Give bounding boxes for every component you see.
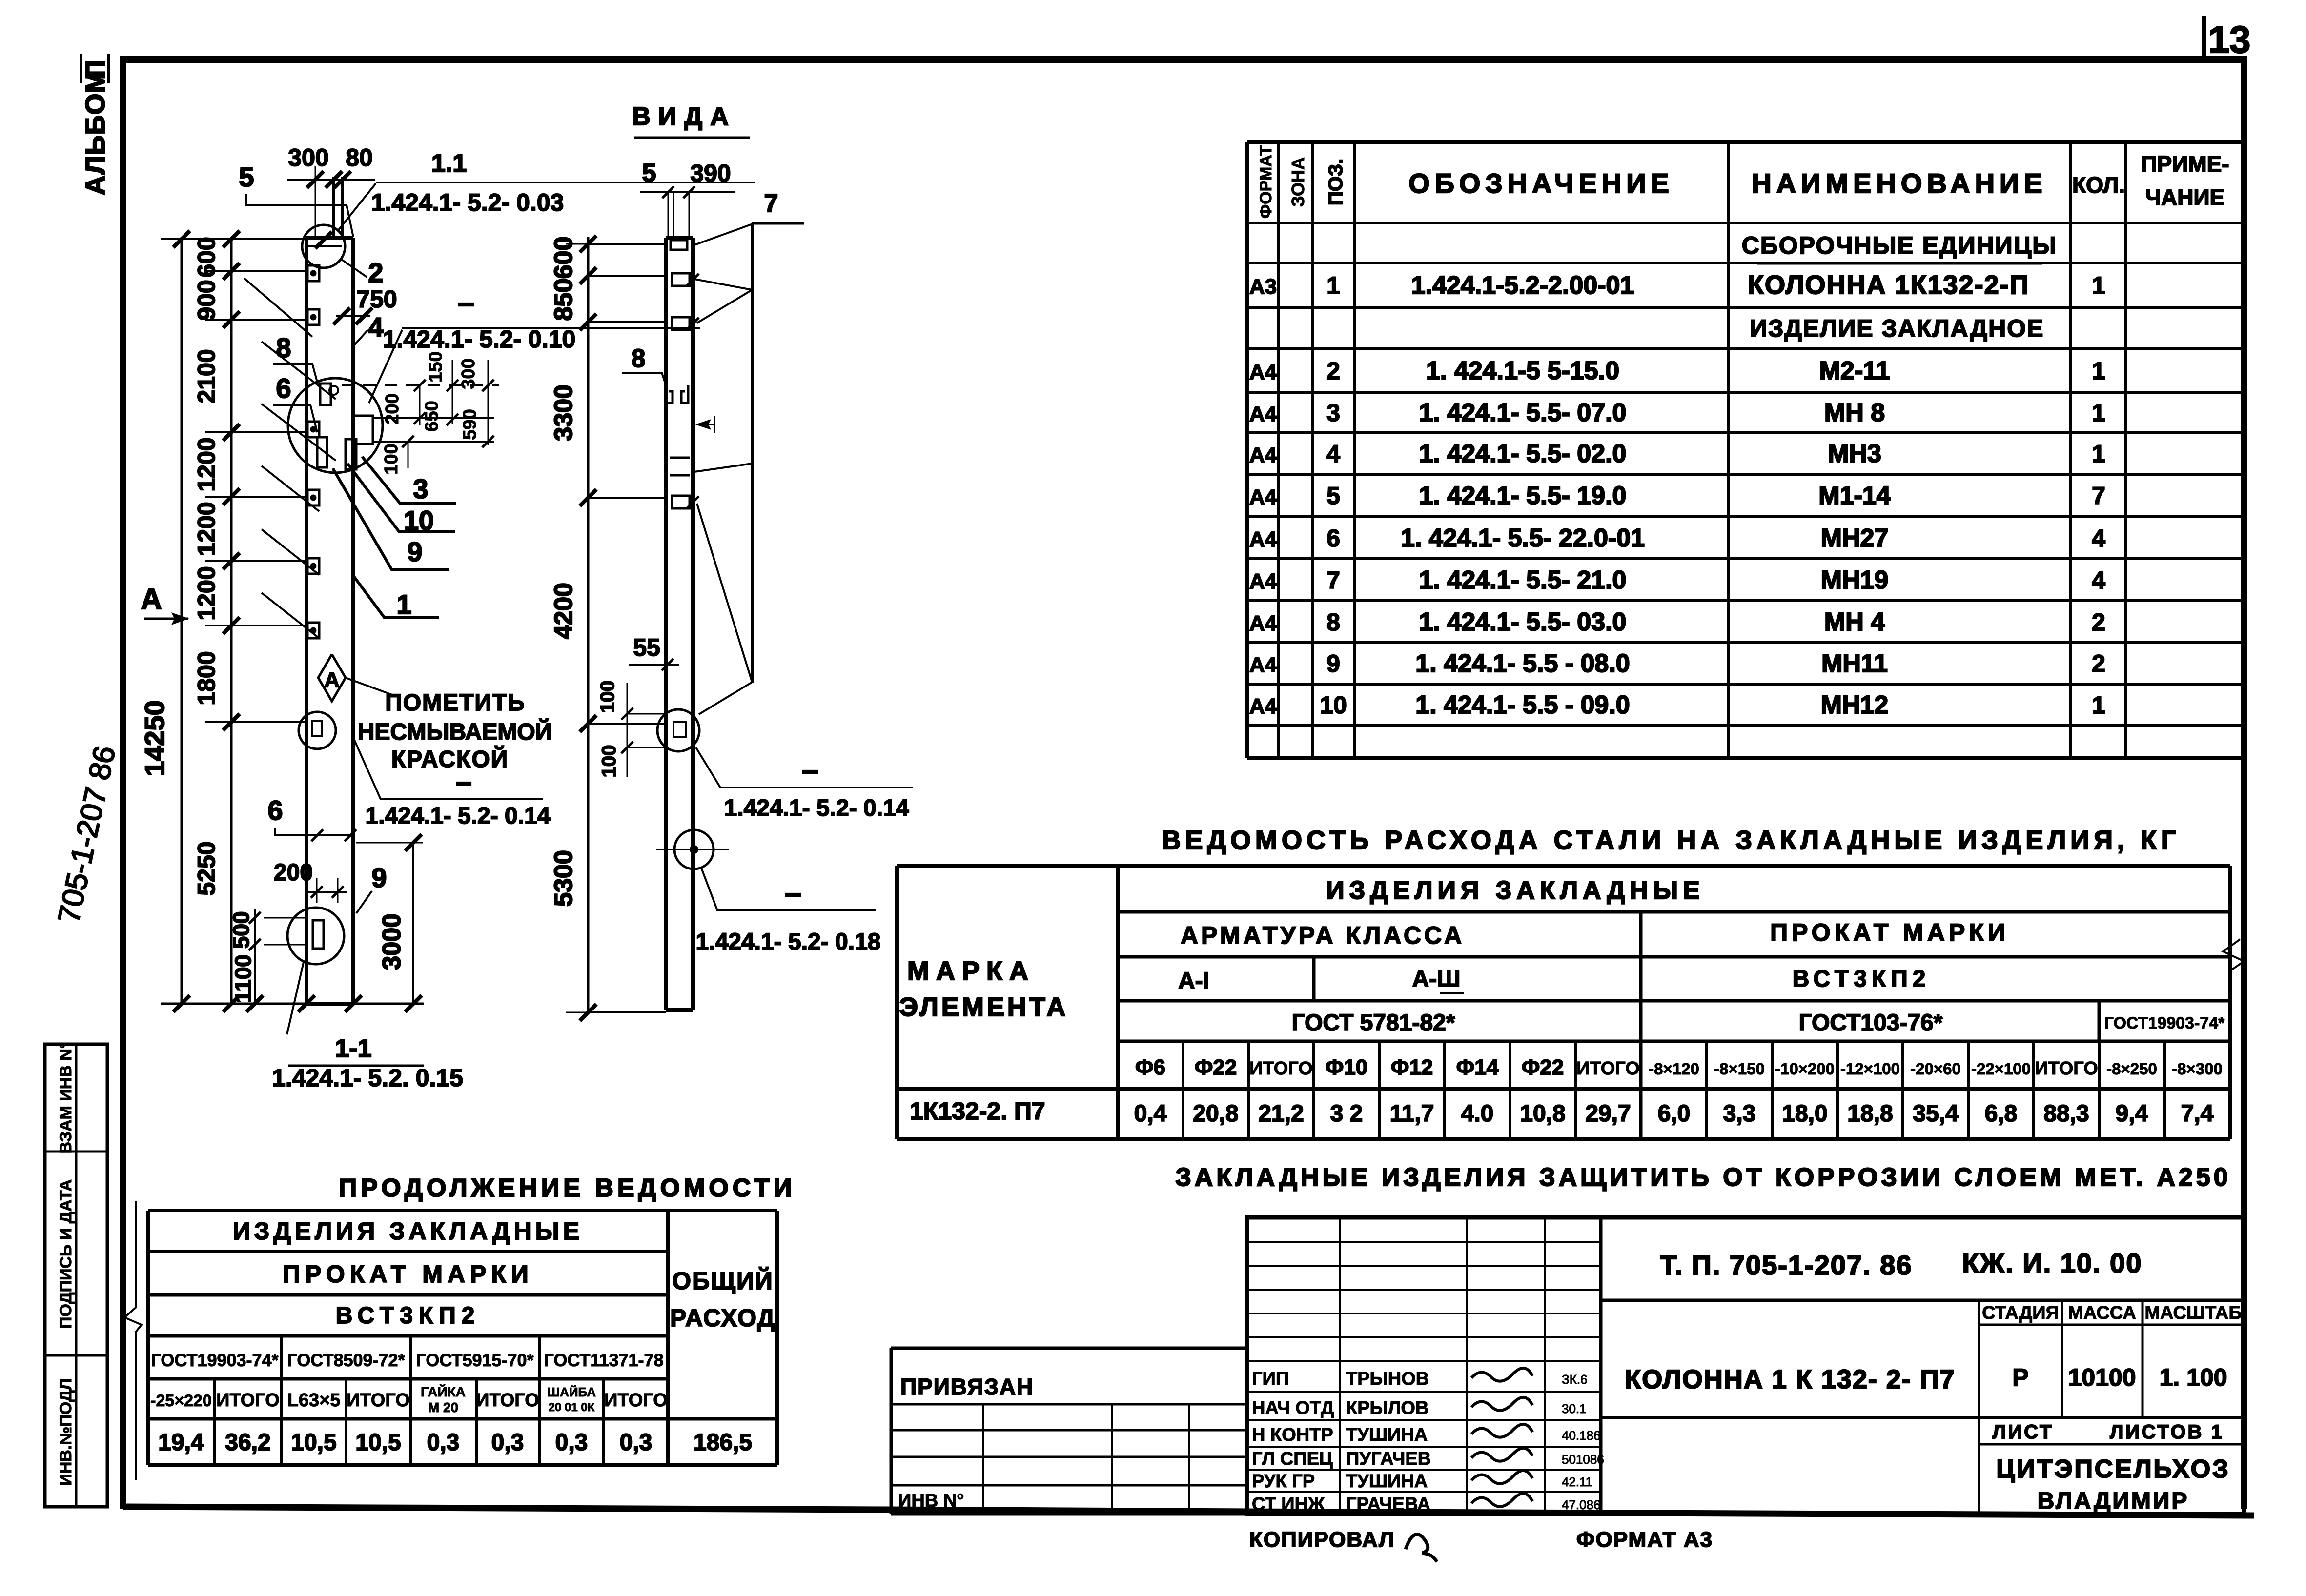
svg-text:ТУШИНА: ТУШИНА	[1346, 1471, 1428, 1492]
svg-text:СБОРОЧНЫЕ ЕДИНИЦЫ: СБОРОЧНЫЕ ЕДИНИЦЫ	[1742, 232, 2057, 259]
svg-text:ИНВ N°: ИНВ N°	[898, 1491, 964, 1511]
svg-text:НАИМЕНОВАНИЕ: НАИМЕНОВАНИЕ	[1752, 168, 2047, 199]
prodolzhenie table grid	[148, 1209, 777, 1212]
svg-text:100: 100	[597, 681, 618, 713]
svg-text:1: 1	[1326, 272, 1340, 299]
vedomost table grid	[897, 864, 2230, 868]
svg-text:3: 3	[1326, 399, 1340, 426]
svg-text:850: 850	[550, 279, 578, 321]
svg-text:КРАСКОЙ: КРАСКОЙ	[391, 746, 509, 772]
svg-text:КОПИРОВАЛ: КОПИРОВАЛ	[1249, 1528, 1395, 1552]
svg-text:ВЛАДИМИР: ВЛАДИМИР	[2038, 1488, 2189, 1514]
svg-text:600: 600	[550, 237, 578, 279]
sign-off signatures (squiggles)	[1471, 1368, 1532, 1381]
svg-text:ИЗДЕЛИЯ ЗАКЛАДНЫЕ: ИЗДЕЛИЯ ЗАКЛАДНЫЕ	[233, 1217, 583, 1245]
vid A dimension chain	[587, 237, 590, 1012]
dim chain 500 1100	[254, 909, 256, 1004]
svg-text:36,2: 36,2	[225, 1430, 270, 1455]
svg-text:13: 13	[2208, 18, 2251, 61]
svg-text:ИТОГО: ИТОГО	[604, 1390, 668, 1411]
svg-text:ЦИТЭПСЕЛЬХОЗ: ЦИТЭПСЕЛЬХОЗ	[1996, 1455, 2230, 1483]
svg-text:1-1: 1-1	[335, 1034, 371, 1063]
svg-text:300: 300	[288, 144, 328, 171]
title block sign-off grid	[1247, 1241, 1601, 1243]
svg-text:А4: А4	[1249, 569, 1277, 593]
svg-text:1: 1	[2092, 691, 2105, 719]
svg-text:МАСШТАБ: МАСШТАБ	[2144, 1303, 2242, 1323]
leader 1.424.1-5.2-0.10	[369, 330, 402, 403]
svg-text:МАРКА: МАРКА	[907, 956, 1035, 986]
svg-text:А4: А4	[1249, 402, 1277, 426]
svg-text:ВСТ3КП2: ВСТ3КП2	[1793, 966, 1931, 992]
svg-text:ПРИВЯЗАН: ПРИВЯЗАН	[900, 1374, 1034, 1399]
svg-text:1200: 1200	[193, 502, 220, 556]
svg-text:-8×250: -8×250	[2106, 1060, 2157, 1078]
svg-text:1. 424.1- 5.5- 02.0: 1. 424.1- 5.5- 02.0	[1419, 440, 1627, 468]
svg-text:18,0: 18,0	[1782, 1101, 1827, 1127]
svg-text:750: 750	[356, 285, 397, 313]
left dimension chain segments	[230, 237, 233, 1004]
svg-text:1. 424.1- 5.5- 19.0: 1. 424.1- 5.5- 19.0	[1419, 482, 1627, 510]
svg-text:8: 8	[1326, 608, 1340, 636]
vid A weld arrow	[696, 424, 714, 425]
svg-text:ПРИМЕ-: ПРИМЕ-	[2141, 151, 2229, 177]
svg-text:ГРАЧЕВА: ГРАЧЕВА	[1346, 1494, 1430, 1515]
svg-text:8: 8	[632, 344, 646, 373]
svg-text:ЗК.6: ЗК.6	[1562, 1372, 1588, 1387]
svg-text:Ф12: Ф12	[1391, 1055, 1433, 1079]
bottom detail circle	[287, 908, 344, 964]
svg-text:0,3: 0,3	[620, 1430, 653, 1455]
svg-text:6: 6	[1326, 525, 1340, 552]
svg-text:1.424.1- 5.2- 0.14: 1.424.1- 5.2- 0.14	[366, 803, 551, 829]
svg-text:390: 390	[690, 160, 731, 187]
svg-text:А4: А4	[1249, 360, 1277, 384]
svg-text:М 20: М 20	[428, 1400, 458, 1415]
svg-text:4200: 4200	[550, 583, 578, 639]
svg-text:9: 9	[1326, 650, 1340, 677]
svg-text:ФОРМАТ А3: ФОРМАТ А3	[1576, 1528, 1713, 1552]
svg-text:5250: 5250	[193, 841, 220, 895]
vid A column strip	[664, 238, 668, 1010]
svg-text:ЗОНА: ЗОНА	[1288, 157, 1308, 207]
svg-text:М1-14: М1-14	[1818, 482, 1890, 510]
svg-text:РУК ГР: РУК ГР	[1252, 1471, 1315, 1492]
svg-text:-22×100: -22×100	[1971, 1060, 2031, 1078]
svg-text:Ф22: Ф22	[1522, 1055, 1564, 1079]
vid A detail circle lower	[674, 830, 714, 869]
svg-text:ФОРМАТ: ФОРМАТ	[1257, 145, 1275, 219]
svg-text:2: 2	[2092, 650, 2105, 677]
svg-text:1100: 1100	[230, 954, 256, 1003]
svg-text:0,3: 0,3	[427, 1430, 460, 1455]
svg-text:9: 9	[407, 536, 422, 567]
svg-text:ИТОГО: ИТОГО	[347, 1390, 410, 1411]
svg-text:СТ ИНЖ: СТ ИНЖ	[1252, 1494, 1325, 1515]
svg-text:9,4: 9,4	[2116, 1101, 2148, 1127]
extension lines from chain to column	[161, 238, 315, 240]
svg-text:1. 424.1- 5.5- 07.0: 1. 424.1- 5.5- 07.0	[1419, 399, 1627, 427]
svg-text:А: А	[141, 583, 162, 615]
dashed line above console	[342, 384, 499, 386]
svg-text:-8×300: -8×300	[2172, 1060, 2223, 1078]
svg-text:5: 5	[642, 159, 656, 187]
svg-text:1.424.1- 5.2- 0.14: 1.424.1- 5.2- 0.14	[724, 795, 909, 821]
svg-text:30.1: 30.1	[1562, 1401, 1587, 1416]
svg-text:ГОСТ19903-74*: ГОСТ19903-74*	[151, 1350, 278, 1370]
svg-text:МАССА: МАССА	[2068, 1303, 2136, 1323]
big detail circle at console	[288, 378, 383, 473]
svg-text:7: 7	[1326, 566, 1340, 594]
svg-text:Т. П. 705-1-207. 86: Т. П. 705-1-207. 86	[1660, 1250, 1912, 1280]
vid A splice dashes	[670, 457, 690, 459]
svg-text:КРЫЛОВ: КРЫЛОВ	[1346, 1398, 1428, 1418]
svg-text:3000: 3000	[378, 913, 406, 970]
leader 1.1	[338, 183, 376, 230]
svg-text:ЛИСТОВ 1: ЛИСТОВ 1	[2110, 1421, 2224, 1443]
svg-text:ВЗАМ ИНВ N°: ВЗАМ ИНВ N°	[57, 1042, 75, 1154]
vid A plates	[672, 273, 690, 286]
svg-text:МН12: МН12	[1821, 691, 1889, 719]
svg-text:МН 8: МН 8	[1824, 399, 1885, 427]
svg-text:150: 150	[426, 351, 446, 382]
svg-text:20,8: 20,8	[1193, 1101, 1238, 1127]
svg-text:1. 424.1- 5.5- 03.0: 1. 424.1- 5.5- 03.0	[1419, 608, 1627, 636]
svg-text:10,5: 10,5	[355, 1430, 401, 1455]
svg-text:4: 4	[2092, 525, 2105, 552]
left view column body	[305, 238, 308, 1004]
svg-text:9: 9	[371, 862, 387, 893]
svg-text:4: 4	[368, 312, 383, 343]
svg-text:11,7: 11,7	[1390, 1101, 1434, 1127]
svg-text:ИЗДЕЛИЕ ЗАКЛАДНОЕ: ИЗДЕЛИЕ ЗАКЛАДНОЕ	[1750, 315, 2044, 342]
svg-text:А-I: А-I	[1178, 968, 1209, 994]
svg-text:500: 500	[228, 911, 254, 949]
svg-text:3,3: 3,3	[1723, 1101, 1756, 1127]
svg-text:ИТОГО: ИТОГО	[476, 1390, 539, 1411]
svg-text:35,4: 35,4	[1913, 1101, 1959, 1127]
svg-text:1: 1	[2092, 272, 2105, 299]
bottom dimension base line	[161, 1003, 424, 1005]
cluster extension lines and ticks	[419, 385, 421, 425]
svg-text:А: А	[324, 668, 340, 692]
prodolzhenie cut edge with break	[124, 1201, 142, 1480]
svg-text:Ф6: Ф6	[1135, 1055, 1165, 1079]
svg-text:ГОСТ11371-78: ГОСТ11371-78	[544, 1350, 663, 1370]
vid A hooks	[666, 385, 673, 403]
svg-text:L63×5: L63×5	[287, 1390, 341, 1411]
svg-text:ЛИСТ: ЛИСТ	[1992, 1421, 2053, 1443]
svg-text:300: 300	[458, 358, 479, 389]
list / listov row	[1601, 1416, 2244, 1419]
svg-text:ИЗДЕЛИЯ ЗАКЛАДНЫЕ: ИЗДЕЛИЯ ЗАКЛАДНЫЕ	[1326, 876, 1704, 905]
svg-text:1: 1	[2092, 357, 2105, 384]
svg-text:1.1: 1.1	[431, 149, 467, 178]
stadiya massa masshtab header	[1979, 1324, 2244, 1326]
svg-text:1.424.1- 5.2. 0.15: 1.424.1- 5.2. 0.15	[272, 1064, 463, 1091]
svg-text:1.424.1-5.2-2.00-01: 1.424.1-5.2-2.00-01	[1411, 271, 1634, 300]
svg-text:42.11: 42.11	[1562, 1475, 1592, 1489]
svg-text:1. 424.1- 5.5- 21.0: 1. 424.1- 5.5- 21.0	[1419, 566, 1627, 594]
svg-text:ПОДПИСЬ И ДАТА: ПОДПИСЬ И ДАТА	[57, 1179, 75, 1329]
svg-text:НАЧ ОТД: НАЧ ОТД	[1252, 1398, 1334, 1418]
svg-text:6,8: 6,8	[1985, 1101, 2018, 1127]
svg-text:186,5: 186,5	[694, 1430, 752, 1455]
svg-text:55: 55	[633, 634, 660, 661]
svg-text:Н КОНТР: Н КОНТР	[1252, 1425, 1333, 1445]
svg-text:650: 650	[422, 401, 442, 431]
svg-text:5300: 5300	[550, 850, 578, 907]
vid A leader 1.424.1-5.2-0.18	[701, 868, 876, 910]
svg-text:А4: А4	[1249, 653, 1277, 677]
vid A right plane	[751, 223, 754, 683]
svg-text:0,3: 0,3	[491, 1430, 524, 1455]
detail circle at column head	[302, 225, 345, 268]
svg-text:ТРЫНОВ: ТРЫНОВ	[1346, 1369, 1429, 1389]
svg-text:КОЛОННА 1К132-2-П: КОЛОННА 1К132-2-П	[1748, 270, 2029, 300]
svg-text:ПРОКАТ МАРКИ: ПРОКАТ МАРКИ	[1770, 919, 2009, 946]
svg-text:ШАЙБА: ШАЙБА	[547, 1385, 596, 1399]
sheet border frame	[122, 56, 2247, 63]
svg-text:1200: 1200	[193, 566, 220, 620]
svg-text:900: 900	[193, 280, 220, 320]
svg-text:ПРОКАТ МАРКИ: ПРОКАТ МАРКИ	[283, 1260, 533, 1288]
svg-text:3300: 3300	[550, 384, 578, 441]
svg-text:ЭЛЕМЕНТА: ЭЛЕМЕНТА	[899, 992, 1069, 1022]
svg-text:ИТОГО: ИТОГО	[1576, 1058, 1640, 1079]
svg-text:ПОМЕТИТЬ: ПОМЕТИТЬ	[385, 690, 525, 716]
svg-text:1.424.1- 5.2- 0.10: 1.424.1- 5.2- 0.10	[383, 325, 576, 353]
svg-text:4.0: 4.0	[1461, 1101, 1494, 1127]
svg-text:МН27: МН27	[1821, 524, 1889, 552]
svg-text:3: 3	[413, 473, 428, 504]
svg-text:СТАДИЯ: СТАДИЯ	[1982, 1303, 2059, 1323]
svg-text:0,3: 0,3	[555, 1430, 588, 1455]
svg-text:А-Ш: А-Ш	[1412, 966, 1461, 992]
svg-text:47.086: 47.086	[1562, 1497, 1601, 1512]
svg-text:КОЛОННА 1 К 132- 2- П7: КОЛОННА 1 К 132- 2- П7	[1625, 1365, 1955, 1394]
svg-text:1: 1	[2092, 399, 2105, 426]
svg-text:2100: 2100	[193, 349, 220, 403]
left stamp boxes	[45, 1044, 107, 1507]
svg-text:Ф10: Ф10	[1326, 1055, 1368, 1079]
svg-text:МН11: МН11	[1821, 649, 1888, 678]
svg-text:А3: А3	[1249, 275, 1277, 299]
title block outer box	[1247, 1217, 2244, 1514]
svg-text:1. 100: 1. 100	[2159, 1364, 2227, 1391]
vedomost break mark right edge	[2223, 939, 2244, 971]
svg-text:29,7: 29,7	[1585, 1101, 1631, 1127]
svg-text:5: 5	[1326, 482, 1340, 509]
svg-text:А4: А4	[1249, 443, 1277, 467]
svg-text:–: –	[458, 286, 474, 319]
embedded plates on column left edge	[307, 265, 319, 281]
svg-text:5: 5	[239, 162, 254, 192]
svg-text:200: 200	[274, 860, 313, 886]
svg-text:ИТОГО: ИТОГО	[216, 1390, 280, 1411]
detail circle mid	[299, 712, 336, 749]
svg-text:100: 100	[598, 745, 620, 778]
svg-text:М2-11: М2-11	[1819, 357, 1890, 385]
privyazan box	[891, 1347, 1247, 1350]
svg-text:ГЛ СПЕЦ: ГЛ СПЕЦ	[1252, 1449, 1333, 1469]
svg-text:10,5: 10,5	[291, 1430, 336, 1455]
vid A diagonals to right plane	[694, 224, 751, 245]
console bracket right of column	[353, 416, 373, 444]
svg-text:20 01 0К: 20 01 0К	[549, 1401, 595, 1414]
svg-text:1.424.1- 5.2- 0.03: 1.424.1- 5.2- 0.03	[371, 189, 564, 216]
svg-text:ТУШИНА: ТУШИНА	[1346, 1425, 1428, 1445]
svg-text:МН19: МН19	[1821, 566, 1889, 594]
svg-text:2: 2	[368, 257, 383, 288]
svg-text:-8×120: -8×120	[1649, 1060, 1699, 1078]
svg-text:6,0: 6,0	[1658, 1101, 1691, 1127]
svg-text:1.424.1- 5.2- 0.18: 1.424.1- 5.2- 0.18	[696, 929, 881, 955]
svg-text:0,4: 0,4	[1134, 1101, 1167, 1127]
svg-text:АРМАТУРА КЛАССА: АРМАТУРА КЛАССА	[1181, 922, 1465, 949]
svg-text:Ф22: Ф22	[1195, 1055, 1237, 1079]
svg-text:ГОСТ8509-72*: ГОСТ8509-72*	[287, 1350, 405, 1370]
svg-text:А4: А4	[1249, 694, 1277, 718]
svg-text:1. 424.1- 5.5 - 08.0: 1. 424.1- 5.5 - 08.0	[1415, 649, 1630, 678]
svg-text:ПРОДОЛЖЕНИЕ ВЕДОМОСТИ: ПРОДОЛЖЕНИЕ ВЕДОМОСТИ	[339, 1174, 796, 1202]
vid A detail circle upper	[657, 709, 699, 751]
svg-text:КЖ. И. 10. 00: КЖ. И. 10. 00	[1962, 1248, 2143, 1278]
svg-text:40.186: 40.186	[1562, 1428, 1601, 1443]
svg-text:10,8: 10,8	[1520, 1101, 1565, 1127]
diagonal hatch leaders	[244, 278, 312, 337]
svg-text:21,2: 21,2	[1258, 1101, 1304, 1127]
vid A top plate	[671, 240, 687, 250]
svg-text:10100: 10100	[2068, 1364, 2136, 1391]
svg-text:П: П	[80, 60, 110, 80]
svg-text:1800: 1800	[193, 651, 220, 705]
svg-text:2: 2	[2092, 608, 2105, 636]
svg-text:ПОЗ.: ПОЗ.	[1325, 159, 1347, 205]
svg-text:КОЛ.: КОЛ.	[2072, 172, 2125, 198]
dim 3000 vertical	[412, 843, 414, 1004]
svg-text:-12×100: -12×100	[1840, 1060, 1900, 1078]
svg-text:–: –	[802, 753, 818, 786]
svg-text:АЛЬБОМ: АЛЬБОМ	[80, 70, 110, 195]
svg-text:2: 2	[1326, 357, 1340, 384]
left dimension chain total 14250	[181, 237, 183, 1004]
svg-text:1К132-2. П7: 1К132-2. П7	[910, 1097, 1045, 1125]
svg-text:Р: Р	[2012, 1364, 2028, 1391]
svg-text:1: 1	[396, 589, 411, 620]
svg-text:ВИДА: ВИДА	[632, 102, 736, 131]
svg-text:ГОСТ5915-70*: ГОСТ5915-70*	[416, 1350, 533, 1370]
svg-text:4: 4	[1326, 440, 1340, 467]
svg-text:ОБЩИЙ: ОБЩИЙ	[672, 1267, 774, 1294]
svg-text:501086: 501086	[1562, 1452, 1604, 1467]
cluster embedded plates	[320, 384, 331, 405]
svg-text:1. 424.1- 5.5 - 09.0: 1. 424.1- 5.5 - 09.0	[1415, 691, 1630, 719]
svg-text:ЗАКЛАДНЫЕ ИЗДЕЛИЯ ЗАЩИТИТЬ ОТ: ЗАКЛАДНЫЕ ИЗДЕЛИЯ ЗАЩИТИТЬ ОТ КОРРОЗИИ С…	[1175, 1163, 2231, 1192]
svg-text:6: 6	[267, 795, 283, 826]
svg-text:А4: А4	[1249, 611, 1277, 635]
specification table grid	[1247, 140, 2244, 144]
svg-text:1200: 1200	[193, 437, 220, 491]
svg-text:НЕСМЫВАЕМОЙ: НЕСМЫВАЕМОЙ	[358, 718, 552, 745]
page-number tick	[2202, 16, 2206, 61]
svg-text:7,4: 7,4	[2181, 1101, 2214, 1127]
svg-text:10: 10	[1320, 691, 1347, 719]
svg-text:ГОСТ 5781-82*: ГОСТ 5781-82*	[1292, 1010, 1455, 1036]
svg-text:19,4: 19,4	[158, 1430, 204, 1455]
svg-text:88,3: 88,3	[2043, 1101, 2089, 1127]
svg-text:-8×150: -8×150	[1714, 1060, 1765, 1078]
svg-text:ИТОГО: ИТОГО	[1249, 1058, 1313, 1079]
svg-text:А4: А4	[1249, 485, 1277, 509]
svg-text:ВСТ3КП2: ВСТ3КП2	[336, 1303, 481, 1329]
svg-text:ОБОЗНАЧЕНИЕ: ОБОЗНАЧЕНИЕ	[1408, 168, 1674, 199]
leader 1.424.1-5.2-0.14 left view	[353, 738, 543, 799]
svg-text:ПУГАЧЕВ: ПУГАЧЕВ	[1346, 1449, 1431, 1469]
svg-text:80: 80	[346, 144, 373, 171]
svg-text:–: –	[455, 765, 471, 798]
svg-text:МН 4: МН 4	[1824, 608, 1885, 636]
left view column top mast	[332, 177, 335, 240]
svg-text:14250: 14250	[139, 700, 170, 776]
svg-text:ИНВ.№ПОДЛ: ИНВ.№ПОДЛ	[57, 1378, 75, 1485]
top dimension line 300/80	[287, 179, 375, 181]
svg-text:590: 590	[460, 409, 480, 440]
svg-text:Ф14: Ф14	[1456, 1055, 1499, 1079]
svg-text:3 2: 3 2	[1330, 1101, 1363, 1127]
svg-text:ГОСТ103-76*: ГОСТ103-76*	[1799, 1010, 1943, 1036]
svg-text:4: 4	[2092, 566, 2105, 594]
diamond mark A on column	[318, 654, 346, 701]
title block doc number cell	[1601, 1299, 2244, 1302]
svg-text:100: 100	[381, 444, 402, 474]
svg-text:–: –	[785, 876, 801, 909]
svg-text:А4: А4	[1249, 527, 1277, 551]
svg-text:МН3: МН3	[1828, 440, 1881, 468]
svg-text:1. 424.1-5 5-15.0: 1. 424.1-5 5-15.0	[1426, 357, 1619, 385]
svg-text:-25×220: -25×220	[150, 1392, 212, 1410]
svg-text:-20×60: -20×60	[1910, 1060, 1961, 1078]
svg-text:1: 1	[2092, 440, 2105, 467]
svg-text:7: 7	[764, 189, 778, 218]
svg-text:ВЕДОМОСТЬ РАСХОДА СТАЛИ НА: ВЕДОМОСТЬ РАСХОДА СТАЛИ НА ЗАКЛАДНЫЕ ИЗД…	[1162, 826, 2180, 855]
svg-text:1. 424.1- 5.5- 22.0-01: 1. 424.1- 5.5- 22.0-01	[1401, 524, 1645, 552]
svg-text:ИТОГО: ИТОГО	[2035, 1058, 2098, 1079]
svg-text:ГАЙКА: ГАЙКА	[421, 1384, 466, 1399]
svg-text:РАСХОД: РАСХОД	[670, 1304, 775, 1332]
svg-text:18,8: 18,8	[1847, 1101, 1893, 1127]
svg-text:ГОСТ19903-74*: ГОСТ19903-74*	[2104, 1014, 2225, 1032]
vid A leader 1.424.1-5.2-0.14	[696, 747, 913, 788]
svg-text:ГИП: ГИП	[1252, 1369, 1289, 1389]
svg-text:ЧАНИЕ: ЧАНИЕ	[2145, 184, 2225, 210]
svg-text:200: 200	[382, 393, 403, 424]
svg-text:-10×200: -10×200	[1775, 1060, 1835, 1078]
svg-text:7: 7	[2092, 482, 2105, 509]
vid A extension lines	[588, 243, 666, 245]
svg-text:6: 6	[276, 373, 291, 404]
